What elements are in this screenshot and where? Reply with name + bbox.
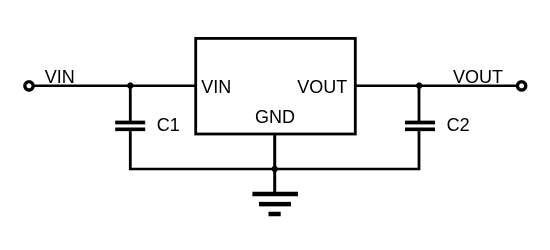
capacitor C1 <box>115 123 145 130</box>
regulator U1 (body) <box>196 38 356 134</box>
wire VOUT output <box>354 84 516 87</box>
svg-text:C1: C1 <box>157 115 180 135</box>
wire VIN input <box>34 84 196 87</box>
terminal VOUT (output pad) <box>517 82 525 90</box>
terminal VIN (input pad) <box>25 82 33 90</box>
svg-text:C2: C2 <box>447 115 470 135</box>
node junction B (VOUT / C2) <box>416 82 422 88</box>
wire C2 top lead <box>418 86 421 121</box>
svg-text:VOUT: VOUT <box>453 67 503 87</box>
ground (earth symbol) <box>252 194 298 214</box>
svg-text:VIN: VIN <box>201 77 231 97</box>
svg-text:VOUT: VOUT <box>297 77 347 97</box>
wire C1 bottom lead <box>129 131 132 170</box>
wire C2 bottom lead <box>418 131 421 170</box>
svg-text:GND: GND <box>255 107 295 127</box>
wire C1 top lead <box>129 86 132 121</box>
wire ground bus <box>130 168 419 171</box>
wire GND pin <box>273 134 276 194</box>
capacitor C2 <box>405 123 435 130</box>
node junction GND (bus / ground) <box>272 166 278 172</box>
node junction A (VIN / C1) <box>127 82 133 88</box>
svg-text:VIN: VIN <box>45 67 75 87</box>
